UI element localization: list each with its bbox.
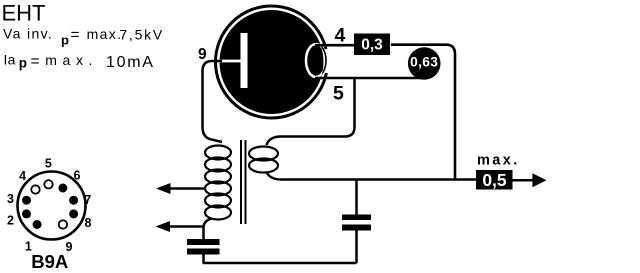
- svg-text:9: 9: [198, 46, 207, 63]
- wire pin9 to transformer primary top: [203, 61, 223, 142]
- svg-text:5: 5: [45, 156, 52, 170]
- svg-text:7,5kV: 7,5kV: [119, 26, 164, 42]
- transformer core: [241, 140, 246, 224]
- tube anode plate: [241, 33, 248, 88]
- svg-text:p: p: [61, 32, 69, 47]
- wire pin4 to resistor 0,3: [315, 44, 355, 47]
- output arrow: [513, 173, 547, 187]
- svg-text:=: =: [71, 27, 80, 44]
- capacitor C2: [342, 180, 371, 264]
- output box 0,5: [476, 170, 513, 190]
- socket pin 7 (filled): [69, 196, 78, 205]
- transformer primary winding (left): [205, 146, 231, 220]
- svg-text:Va inv.: Va inv.: [3, 25, 53, 41]
- svg-text:0,63: 0,63: [410, 55, 438, 70]
- socket pin 6 (filled): [58, 184, 67, 193]
- tube anode lead (white inside disc): [220, 60, 242, 63]
- socket pin 4 (open): [31, 185, 39, 193]
- svg-text:10mA: 10mA: [106, 54, 155, 71]
- capacitor C1: [187, 239, 220, 263]
- svg-text:5: 5: [333, 83, 344, 105]
- wire pin5 horizontal: [315, 77, 423, 80]
- socket pin 1 (filled): [33, 220, 42, 229]
- svg-text:=: =: [31, 53, 40, 70]
- svg-text:3: 3: [7, 192, 14, 206]
- socket pin 5 (open): [44, 180, 52, 188]
- svg-text:B9A: B9A: [31, 251, 68, 272]
- svg-text:Ia: Ia: [4, 52, 16, 68]
- svg-text:4: 4: [19, 169, 26, 183]
- socket pin 8 (filled): [69, 209, 78, 218]
- svg-text:max.: max.: [87, 26, 123, 42]
- svg-text:8: 8: [85, 216, 92, 230]
- svg-text:7: 7: [84, 193, 91, 207]
- svg-text:6: 6: [74, 168, 81, 182]
- socket pin 9 (open): [59, 220, 67, 228]
- tube filament (white arc over disc): [306, 44, 326, 77]
- wire heater winding bottom to output line: [266, 172, 477, 180]
- bottom wire: [203, 262, 357, 265]
- socket pin 2 (filled): [22, 209, 31, 218]
- value label Va inv p = max. 7,5kV: [3, 25, 164, 47]
- wire pin5 branch down to heater winding: [267, 78, 355, 145]
- svg-text:0,5: 0,5: [482, 170, 507, 190]
- wire primary bottom with arrow: [156, 219, 213, 240]
- svg-text:0,3: 0,3: [361, 37, 383, 54]
- svg-text:p: p: [19, 56, 27, 71]
- socket pin 3 (filled): [22, 196, 31, 205]
- svg-text:max.: max.: [45, 52, 98, 68]
- wire 0,3 box to right vertical: [391, 45, 455, 180]
- current disc 0,63: [408, 47, 441, 80]
- svg-text:2: 2: [7, 213, 14, 227]
- transformer heater winding (right): [249, 147, 278, 173]
- svg-text:EHT: EHT: [2, 1, 46, 26]
- socket B9A outline: [18, 172, 86, 240]
- tube V1 envelope: [216, 6, 330, 118]
- svg-text:max.: max.: [477, 153, 520, 169]
- wire primary tap with arrow: [156, 183, 206, 194]
- value label Ia p = max. 10mA: [4, 52, 155, 71]
- resistor box 0,3: [354, 34, 390, 56]
- svg-text:4: 4: [335, 25, 346, 47]
